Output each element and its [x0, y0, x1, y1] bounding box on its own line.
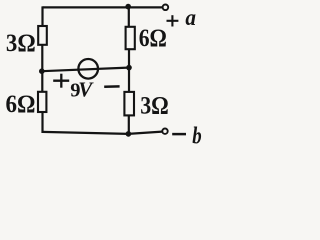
junction node bottom-right: [126, 131, 132, 137]
svg-text:6Ω: 6Ω: [139, 23, 167, 52]
svg-text:3Ω: 3Ω: [140, 91, 169, 120]
wire top: [43, 6, 163, 8]
junction node right-middle: [126, 65, 132, 71]
svg-text:3Ω: 3Ω: [6, 28, 36, 57]
label 9V: [70, 78, 94, 102]
wire right lower: [128, 115, 130, 135]
wire bottom left-segment: [42, 132, 128, 134]
resistor 6Ω bottom-left: [38, 92, 46, 112]
wire right upper: [128, 7, 130, 28]
wire left upper: [41, 6, 43, 26]
terminal a (open circle): [163, 5, 169, 11]
wire middle (source branch): [42, 68, 129, 72]
svg-text:6Ω: 6Ω: [6, 89, 36, 118]
plus sign of source: [53, 74, 69, 88]
resistor 3Ω top-left: [38, 26, 47, 45]
junction node top-right: [125, 4, 131, 10]
terminal b (open circle): [162, 129, 167, 134]
wire right middle: [128, 49, 130, 92]
resistor 6Ω top-right: [126, 27, 135, 49]
plus sign at terminal a: [167, 15, 179, 26]
minus sign of source: [104, 85, 119, 88]
svg-text:V: V: [78, 78, 94, 102]
resistor 3Ω bottom-right: [124, 92, 134, 116]
wire left lower: [41, 112, 43, 133]
svg-text:a: a: [185, 5, 196, 30]
wire bottom right-segment: [128, 132, 162, 134]
wire left middle: [41, 45, 43, 93]
voltage source circle: [78, 59, 98, 79]
svg-text:b: b: [192, 123, 201, 150]
minus sign at terminal b: [172, 133, 186, 136]
junction node left-middle: [39, 68, 45, 74]
